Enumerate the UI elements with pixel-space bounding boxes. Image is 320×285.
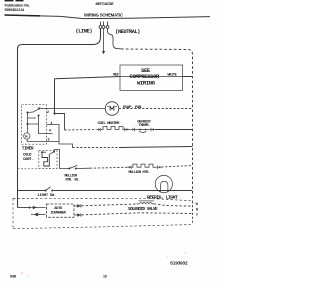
scan noise dots [21,272,22,273]
wire icemaker return row to rail [82,213,193,215]
svg-text:Publication No.: Publication No. [5,3,30,7]
wire light row to lamp [53,190,192,192]
wire to defrost therm [129,129,132,131]
icemaker outer dashed box top [13,198,193,201]
power cord plug prong right [106,22,109,29]
svg-text:5995302214: 5995302214 [5,8,26,12]
cold control bellows element [42,153,49,166]
connector left of mullion heater [127,165,131,169]
wire compressor feed vertical [54,79,56,114]
svg-text:AUTO: AUTO [54,207,63,211]
wire line-side from plug to left rail [18,28,101,207]
wire terminal1 to row D [47,125,73,149]
wire compressor row [55,77,193,79]
node timer pivot A [27,112,29,114]
svg-text:CONT.: CONT. [23,158,33,162]
wire light row [18,190,45,192]
defrost thermostat [135,129,151,133]
wire evap fan row right (dashed) [119,108,193,110]
refrigerator light lamp [155,175,172,192]
power cord plug prong left [99,22,102,29]
svg-text:LIGHT SW.: LIGHT SW. [38,194,56,198]
resistor coil heater (defrost heater) [101,127,125,130]
resistor mullion heater [131,164,157,167]
ground wire and arrow [102,28,105,54]
wire row D solid to rail [119,147,193,148]
timer motor TM [24,133,30,139]
wire cold control to mullion row [54,150,68,169]
svg-text:H: H [196,209,198,213]
svg-text:(LINE): (LINE) [76,28,93,34]
auto icemaker box [47,204,75,217]
power cord plug prong middle (ground) [102,22,105,29]
wire coil heater row dashed from step [65,129,97,132]
evap fan motor [105,102,119,116]
cold control bottom dashes to rail [18,168,39,170]
svg-text:SOLENOID VALVE: SOLENOID VALVE [128,207,158,212]
wire neutral from plug (dashed) to right rail [108,28,122,48]
icemaker right connector top [74,204,81,207]
svg-text:4: 4 [49,130,52,134]
icemaker outer dashed box left [12,198,14,228]
svg-text:WIRING: WIRING [137,79,156,86]
cold control switch [41,151,55,155]
connector arrow left of coil heater [97,128,100,132]
connector arrow right of coil heater [125,128,129,132]
node terminal2 dot [53,112,55,114]
wire mullion row to rail [161,166,192,168]
mullion heater switch [68,165,77,169]
solenoid valve coil [137,201,154,204]
right rail lower segment [192,205,194,225]
svg-text:ICEMAKER: ICEMAKER [50,211,66,215]
wire mullion switch to connector [77,167,90,169]
svg-text:TM: TM [24,135,27,138]
svg-text:6/96: 6/96 [10,275,16,279]
wire timer internal vertical [27,112,29,133]
svg-text:WIRING SCHEMATIC: WIRING SCHEMATIC [84,12,123,17]
svg-text:S193932: S193932 [170,260,188,265]
icemaker right connector bottom [74,213,81,216]
wire evap fan row left [55,108,106,110]
svg-text:RED: RED [113,72,118,76]
wire arm to terminal 2 [40,108,54,110]
icemaker outer dashed box bottom / return row [13,225,193,229]
wire pivot B stub [28,118,39,124]
node timer pivot B [27,123,29,125]
timer switch arm [28,108,41,112]
svg-text:THERM.: THERM. [139,124,151,128]
svg-text:3: 3 [47,139,49,143]
svg-text:REFRIG. LIGHT: REFRIG. LIGHT [147,195,178,201]
header rule left [5,15,211,19]
defrost timer box [22,105,47,145]
header publication block [5,0,30,12]
svg-text:10: 10 [103,275,107,279]
compressor box (see compressor wiring) [120,65,183,91]
wire row D dashed [73,147,120,149]
wire timer motor TM to terminal 3 [27,139,59,141]
svg-text:MRT18CSE: MRT18CSE [96,2,115,6]
connector icemaker feed [30,206,46,209]
svg-text:W: W [196,203,199,207]
cold control box [39,151,57,169]
svg-text:2: 2 [47,111,49,115]
light switch [45,187,54,192]
svg-text:COIL HEATER: COIL HEATER [98,122,121,126]
connector right of mullion heater [158,165,162,169]
svg-text:1: 1 [50,122,52,126]
svg-text:T: T [196,214,199,218]
node timer contact C [38,115,40,117]
svg-text:TIMER: TIMER [22,146,34,151]
connector right of defrost therm [151,128,155,132]
wire left rail to icemaker [18,207,30,209]
connector left of defrost therm [131,128,135,132]
connector icemaker return left [38,214,46,216]
wire solenoid to rail [154,204,193,206]
svg-text:WHITE: WHITE [168,74,177,78]
svg-text:(NEUTRAL): (NEUTRAL) [115,29,140,35]
wire contact C to terminal 4 row [39,116,53,134]
svg-text:HTR. SW.: HTR. SW. [66,179,80,183]
wire defrost row to rail [155,129,193,131]
svg-text:MULLION HTR.: MULLION HTR. [129,171,150,175]
wire terminal2 to heater feed step [55,114,65,131]
wire icemaker to solenoid (dashed) [82,204,137,206]
